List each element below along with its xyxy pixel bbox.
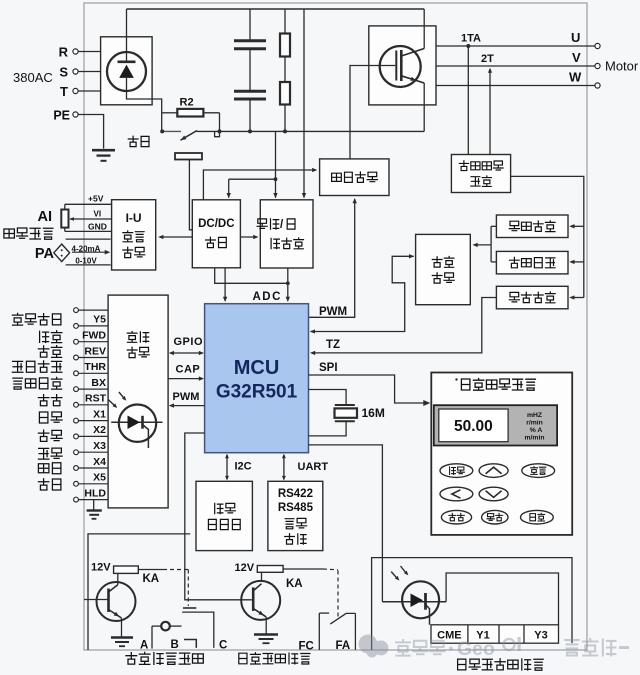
+5V rail [65,203,112,205]
svg-text:50.00: 50.00 [454,418,493,435]
switch blade (接地) [181,131,198,141]
svg-text:0-10V: 0-10V [75,256,97,265]
isolation block 隔离电路 [108,295,168,508]
capacitor C2 [234,90,266,93]
svg-text:AI: AI [38,209,53,225]
svg-text:X3: X3 [93,440,106,452]
svg-text:THR: THR [84,361,106,373]
button 功能 [482,510,508,524]
label 中速 [38,430,62,441]
block DC/DC 电源 [192,200,240,268]
optocoupler U2 [119,405,156,442]
label 开路集电极输出 [458,659,544,670]
block 驱动电路 [320,159,389,196]
svg-text:A: A [140,640,148,652]
relay KA1 linkage (dashed) [138,569,163,571]
label 反转 [38,346,62,358]
capacitor C1 [249,9,251,41]
svg-text:U: U [571,30,580,45]
inverter block [369,26,436,105]
PA range box [66,238,111,240]
svg-text:REV: REV [84,345,106,357]
terminal line 6 [79,404,109,406]
svg-text:W: W [569,70,582,85]
wire comparators to protection [491,225,496,227]
sensor bar [175,153,202,160]
wire V [436,65,595,67]
svg-text:R: R [59,45,69,60]
rectifier diode D1 [107,52,146,91]
label 频率设定 [4,228,53,239]
wire MCU to opto [309,445,383,602]
terminal line 5 [79,388,109,390]
svg-text:mHZ: mHZ [527,412,542,419]
block 程序存储器 [196,481,252,550]
svg-text:KA: KA [143,573,160,585]
optocoupler U3 [402,581,439,618]
wire ADC [215,268,288,284]
svg-text:UART: UART [298,461,329,473]
CAP line [168,378,202,380]
svg-text:B: B [171,639,179,651]
svg-text:380AC: 380AC [13,70,53,85]
open collector enclosure [372,558,572,650]
label 接地 [128,136,149,146]
wire DCDC to driver [203,170,315,200]
junction dots on bus [160,129,164,133]
svg-text:Geo: Geo [457,638,495,660]
svg-text:I2C: I2C [235,461,252,473]
svg-text:m/min: m/min [524,434,544,441]
light arrows [108,400,115,407]
svg-text:BX: BX [91,377,106,389]
label 正转 [40,331,62,343]
terminal line 11 [79,483,109,485]
svg-text:I-U: I-U [126,211,142,225]
IGBT Q1 [380,46,421,87]
svg-text:X4: X4 [93,456,106,468]
wire IGBT gate from driver [350,66,395,159]
wire IGBT emitter [423,83,425,131]
button down [479,487,508,501]
terminal line 8 [79,435,109,437]
label 运行状态输出 [239,653,310,664]
label 低速 [38,448,62,459]
DC- bottom bus with disconnect [162,130,181,132]
resistor R4 (bleeder bottom) [280,82,290,105]
button left [440,487,473,501]
terminal line 4 [79,372,109,374]
relay KA2 linkage (dashed) [283,568,323,570]
label 接地 [38,479,61,490]
wire DC+ top bus [126,9,128,62]
terminal line 0 [79,309,109,311]
svg-text:4-20mA: 4-20mA [72,244,101,253]
wire IGBT collector [423,9,425,49]
terminal line 3 [79,357,109,359]
wire rectifier negative out [127,78,162,131]
crystal 16M [309,390,347,405]
terminal line 12 [79,499,109,501]
svg-text:% A: % A [530,427,543,434]
MCU U1 G32R501 [205,304,309,453]
watermark [359,635,630,661]
button 复位 [441,510,471,524]
wire current sense to comparators [511,176,584,297]
block I-U 转换电路 [112,200,156,270]
button 程序 [440,464,473,478]
wire UART [283,455,285,479]
svg-text:12V: 12V [91,562,111,574]
label 高速 [39,412,62,423]
connector hook under R2 [215,131,220,136]
PA diamond [54,244,70,262]
block 过压/欠压保护 [260,200,313,268]
terminal R [73,49,78,54]
svg-text:r/min: r/min [526,419,543,426]
svg-text:PWM: PWM [173,391,200,403]
border frame [84,3,587,650]
label 外部报警 [12,361,62,372]
label 转速反馈 [12,313,61,325]
svg-text:Y5: Y5 [93,314,106,326]
wire T [78,90,101,92]
svg-text:DC/DC: DC/DC [198,218,234,230]
svg-text:FA: FA [336,640,351,652]
label 点动 [38,463,61,474]
resistor R3 (bleeder top) [284,9,286,34]
terminal line 9 [79,451,109,453]
svg-text:S: S [59,65,68,80]
svg-text:T: T [60,84,68,99]
svg-text:+5V: +5V [88,193,104,203]
svg-text:C: C [219,640,227,652]
ground Q2 [121,618,123,636]
wire SPI to panel [309,375,427,403]
svg-text:RS485: RS485 [278,502,314,514]
svg-text:16M: 16M [362,406,385,420]
rectifier block [101,37,153,105]
button 停止 [522,464,555,478]
svg-text:RST: RST [85,393,107,405]
ground Q3 [265,617,267,634]
terminal W [595,83,600,88]
contact FC-FA [319,612,329,614]
svg-text:PWM: PWM [319,306,347,318]
svg-text:CAP: CAP [176,364,201,376]
display module [434,405,557,445]
wire PE to ground [78,115,104,149]
terminal line 1 [79,325,109,327]
label 故障输出触点 [126,652,203,664]
terminal line 10 [79,467,109,469]
VI tap [70,218,112,220]
svg-text:HLD: HLD [84,487,106,499]
block 保护电路 [416,234,471,304]
svg-text:Y3: Y3 [534,629,547,641]
label 复位 [38,395,62,406]
wire R [78,51,101,53]
svg-text:PA: PA [35,246,55,262]
svg-text:PE: PE [53,109,70,123]
svg-text:V: V [572,50,581,65]
button up [479,464,508,478]
ground (PE) [92,149,115,152]
wire W [436,85,595,87]
wire opto collector to Y3 [446,573,558,625]
output terminal strip CME Y1 Y2 Y3 [431,625,559,643]
svg-text:VI: VI [94,210,102,219]
operation panel 运转方式显示 [431,373,572,535]
svg-text:RS422: RS422 [278,488,313,500]
wire S [78,71,101,73]
light arrows [391,572,398,580]
terminal U [595,43,600,48]
svg-text:X2: X2 [93,424,106,436]
wire U [436,45,595,47]
terminal PE [73,112,78,117]
terminal S [73,69,78,74]
svg-text:MCU: MCU [234,357,280,379]
block 电流限制 [496,251,568,274]
svg-text:12V: 12V [235,562,255,574]
ground (HLD) [93,500,95,510]
svg-text:FC: FC [299,641,314,653]
PWM line (left) [170,405,204,407]
wire I2C [226,455,228,479]
svg-text:G32R501: G32R501 [216,382,298,403]
GPIO bus [170,352,202,354]
button 运行 [521,510,554,524]
fault output enclosure [88,534,190,650]
svg-text:Motor: Motor [605,59,639,74]
svg-text:ADC: ADC [253,291,282,303]
svg-text:2T: 2T [481,53,494,65]
block 过载保护 [496,286,568,309]
svg-text:FWD: FWD [82,330,106,342]
wire PWM to driver [309,199,355,317]
wire DCDC to OVP [240,236,257,238]
contact A-B [182,612,214,648]
svg-text:SPI: SPI [319,362,338,374]
terminal T [73,88,78,93]
svg-text:X1: X1 [93,408,106,420]
wire overload to MCU [312,298,497,353]
svg-text:X5: X5 [93,472,106,484]
wire DCDC to I-U [160,236,193,238]
GND rail [65,230,112,232]
wire MCU-protection zigzag [311,256,414,331]
resistor R2 [162,112,178,114]
svg-text:GND: GND [88,222,107,232]
terminal line 7 [79,420,109,422]
svg-text:R2: R2 [180,97,194,109]
svg-text:GPIO: GPIO [174,336,204,348]
block RS422/RS485 [268,481,323,550]
svg-text:1TA: 1TA [461,33,481,45]
svg-text:KA: KA [286,578,303,590]
terminal line 2 [79,341,109,343]
wire MCU to relay2 base [185,433,252,600]
terminal V [595,63,600,68]
wire bus feeds [275,131,277,197]
current sense block 电流信号取值 [451,155,510,193]
svg-text:TZ: TZ [326,339,340,351]
label 自由运转 [13,377,62,389]
potentiometer [64,204,66,209]
block 过流保护 [496,215,568,238]
